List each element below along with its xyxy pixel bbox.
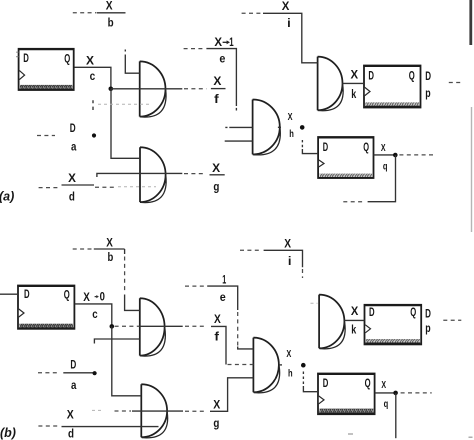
svg-text:D: D [70, 360, 76, 372]
wire into G3 input 2 (a) [225, 140, 253, 142]
wire d dashes (b) [38, 425, 59, 427]
wire b dashes (b) [73, 248, 92, 250]
flip-flop FF5 (b, output p) [364, 305, 422, 345]
svg-text:D: D [369, 307, 375, 319]
svg-text:Q: Q [409, 71, 415, 83]
faint removed wire stub left of G6 (b) [92, 409, 101, 411]
wire a dashes (b) [38, 372, 59, 374]
svg-text:X: X [381, 143, 386, 154]
svg-text:D: D [323, 378, 329, 390]
flip-flop FF1 (a) [16, 49, 74, 90]
wire through G6 to output g (b) [132, 410, 183, 412]
svg-text:e: e [220, 292, 226, 304]
wire d dashes right (a) [95, 186, 115, 188]
wire q dashes right (a) [399, 154, 433, 156]
svg-text:q: q [383, 162, 388, 173]
wire f dashed link into G7 (b) [228, 364, 254, 366]
svg-text:k: k [351, 324, 356, 336]
AND gate G7 (middle gate of b, output h) [253, 338, 279, 393]
faint wire i tick into G8 (b) [311, 302, 318, 304]
svg-text:X: X [83, 292, 90, 304]
wire into G2 lower input through gate to output g (a) [97, 173, 182, 177]
svg-text:i: i [287, 18, 291, 30]
wire from a into G5 third input (b) [94, 339, 139, 344]
wire e dashes (b) [185, 285, 204, 287]
svg-text:1: 1 [222, 275, 226, 287]
svg-text:Q: Q [410, 307, 416, 319]
svg-text:i: i [288, 256, 292, 268]
svg-text:D: D [425, 71, 431, 83]
node d label and solid run into G6 (b) [62, 426, 159, 428]
wire k from G8 to FF5 (b) [344, 319, 364, 321]
svg-text:X: X [106, 1, 113, 13]
flip-flop FF4 (b) [17, 286, 75, 329]
svg-text:h: h [288, 368, 293, 379]
wire e dashed drop into G7 (b) [237, 312, 239, 346]
wire a stub dashes and junction dot (a) [92, 100, 94, 110]
wire i with corner to G4 (a) [263, 13, 318, 63]
stray scan dash bottom left of FF6 (b) [348, 433, 353, 435]
AND gate G1 (top-left gate, output f) [140, 61, 166, 117]
svg-text:b: b [108, 18, 114, 30]
svg-text:0: 0 [100, 291, 105, 303]
svg-text:X: X [213, 76, 221, 88]
wire q feedback down-left (a) [368, 155, 396, 202]
svg-text:D: D [323, 142, 328, 154]
svg-text:X: X [67, 409, 74, 421]
svg-text:X: X [213, 400, 220, 412]
flip-flop FF6 (b, output q) [317, 374, 375, 415]
stray scan dash bottom right edge (b) [469, 436, 473, 438]
junction on wire c (a) [109, 87, 114, 92]
svg-text:X: X [212, 163, 220, 175]
svg-text:d: d [68, 429, 74, 440]
svg-text:Q: Q [64, 53, 70, 65]
AND gate G5 (top-left gate of b, output f) [140, 298, 166, 356]
svg-text:Q: Q [64, 290, 70, 302]
wire c through G5 to output f (b) [140, 325, 183, 327]
wire q from FF6 Q (b) [375, 392, 396, 394]
junction dot on wire a (b) [93, 371, 97, 375]
svg-text:X: X [351, 306, 359, 318]
AND gate G8 (right gate of b, output k) [319, 295, 345, 349]
svg-text:(b): (b) [0, 426, 16, 440]
junction on wire h (a) [300, 125, 305, 130]
svg-text:f: f [214, 331, 219, 343]
node g label (a) [210, 174, 225, 176]
svg-text:c: c [92, 309, 98, 321]
svg-text:f: f [214, 94, 219, 106]
svg-text:D: D [368, 71, 374, 83]
wire c junction drop to G2 (a) [111, 89, 140, 159]
wire f dashes (b) [185, 325, 206, 327]
faint removed wire d through G2 (a) [118, 186, 156, 188]
node g label and corner up to G7 (b) [210, 378, 253, 412]
wire d dashes left (a) [39, 187, 61, 189]
figure right edge bracket solid (a) [469, 0, 472, 45]
svg-text:X: X [286, 349, 291, 360]
wire h output tick (a) [278, 126, 281, 128]
wire h drop to FF6 D input (b) [303, 372, 318, 392]
wire b vertical dashed drop (b) [124, 249, 126, 254]
wire b (a) [97, 12, 126, 14]
svg-text:p: p [425, 323, 430, 335]
svg-text:e: e [219, 54, 225, 66]
wire i dashed fade (b) [302, 269, 304, 278]
node a label (b) [63, 372, 93, 374]
node d label (a) [62, 184, 95, 186]
wire h output tick (b) [279, 364, 282, 366]
figure right edge bracket faint (a) [471, 107, 473, 232]
wire q dashes right (b) [401, 392, 432, 394]
svg-text:X: X [351, 70, 359, 82]
svg-text:a: a [71, 142, 77, 154]
flip-flop FF3 (a, output q) [318, 137, 375, 178]
svg-text:X: X [282, 1, 290, 13]
AND gate G4 (right gate, output k) [318, 57, 344, 111]
wire into G3 input 1 (a) [225, 126, 252, 128]
wire q from FF3 Q (a) [374, 154, 396, 156]
svg-text:c: c [90, 71, 96, 83]
svg-text:D: D [425, 308, 431, 320]
wire b vertical drop to G1 (a) [125, 50, 139, 74]
wire p dashes (b) [443, 319, 461, 321]
svg-text:q: q [384, 399, 389, 410]
wire p dashes (a) [449, 82, 463, 84]
svg-text:X: X [214, 37, 222, 49]
svg-text:(a): (a) [0, 190, 14, 204]
svg-text:D: D [70, 123, 76, 135]
svg-text:d: d [69, 191, 75, 203]
AND gate G6 (lower-left gate of b, output g) [141, 384, 167, 438]
AND gate G2 (lower-left gate, output g) [140, 147, 166, 202]
wire dashed into G6 middle (b) [115, 410, 132, 412]
wire e with corner down (a) [206, 49, 236, 106]
svg-text:p: p [425, 88, 430, 100]
svg-text:X: X [288, 112, 293, 123]
svg-text:X: X [86, 55, 94, 67]
junction on wire h (b) [301, 363, 306, 368]
wire c from FF4 Q (b) [75, 304, 112, 327]
wire f dashes (a) [184, 88, 207, 90]
wire k from G4 to FF2 (a) [342, 82, 364, 84]
svg-text:h: h [289, 129, 294, 140]
wire c dashed link to G5 (b) [115, 325, 140, 327]
wire e (b) [207, 286, 238, 310]
svg-text:D: D [24, 289, 30, 301]
svg-text:Q: Q [363, 142, 369, 154]
wire h drop to FF3 D input (a) [302, 140, 318, 154]
svg-text:1: 1 [229, 37, 234, 49]
wire c drop to G6 (b) [112, 326, 142, 395]
wire into FF4 D input (b) [0, 293, 18, 295]
svg-text:X: X [106, 237, 113, 249]
wire g dashes (b) [185, 410, 206, 412]
wire i dashes (a) [242, 12, 261, 14]
node f label (a) [211, 88, 226, 90]
faint removed wire from a to G1 (a) [98, 103, 152, 105]
svg-text:a: a [71, 380, 77, 392]
wire c from FF1 Q (a) [75, 67, 111, 89]
wire a dashes (a) [37, 135, 55, 137]
wire b dashes (a) [73, 12, 97, 14]
wire q drop to figure edge (b) [395, 393, 397, 438]
node f label and corner down to G7 (b) [211, 326, 226, 364]
svg-text:X: X [214, 314, 221, 326]
svg-text:D: D [23, 53, 29, 65]
junction on wire c (b) [110, 324, 115, 329]
wire b (b) [94, 248, 125, 250]
wire i dashes (b) [240, 249, 261, 251]
svg-text:X: X [68, 173, 76, 185]
svg-text:b: b [108, 252, 114, 264]
flip-flop FF2 (a, output p) [363, 66, 421, 108]
wire e dashes (a) [184, 48, 204, 50]
svg-text:Q: Q [365, 378, 371, 390]
svg-text:X: X [381, 380, 386, 391]
junction on wire q (b) [393, 391, 398, 396]
AND gate G3 (middle gate, output h) [253, 100, 281, 155]
svg-text:X: X [284, 239, 291, 251]
wire g dashes (a) [184, 173, 206, 175]
wire i (b) [264, 250, 303, 267]
junction on wire q (a) [393, 153, 398, 158]
svg-text:g: g [213, 418, 219, 430]
wire c through G1 to output f (a) [111, 88, 183, 90]
svg-text:g: g [213, 182, 219, 194]
wire q feedback dashes (a) [343, 201, 364, 203]
svg-text:k: k [351, 89, 356, 101]
